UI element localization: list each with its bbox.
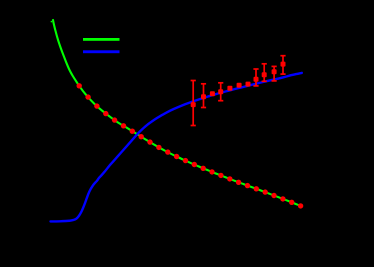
legend: blue line sample <box>83 50 120 53</box>
green speck near curve start <box>51 21 52 22</box>
red dots on green curve <box>77 83 304 208</box>
green equilibrium curve <box>53 20 302 206</box>
blue curve <box>51 73 302 222</box>
red data points with error bars <box>191 56 286 126</box>
legend: green line sample <box>83 38 120 41</box>
